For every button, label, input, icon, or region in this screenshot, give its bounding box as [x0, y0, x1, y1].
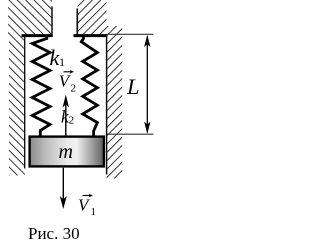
svg-text:2: 2	[69, 114, 75, 126]
svg-text:V: V	[78, 195, 91, 214]
svg-text:L: L	[126, 74, 140, 99]
svg-text:1: 1	[91, 206, 97, 218]
svg-text:m: m	[59, 141, 73, 163]
svg-text:2: 2	[71, 83, 77, 95]
svg-text:1: 1	[59, 55, 65, 69]
svg-text:Рис. 30: Рис. 30	[28, 224, 80, 243]
